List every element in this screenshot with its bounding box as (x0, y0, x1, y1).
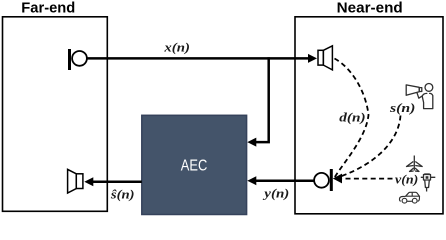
svg-text:AEC: AEC (181, 158, 208, 175)
dashed path d(n): echo from speaker to microphone (335, 59, 369, 178)
box Far-end (3, 17, 108, 212)
icon airplane (noise source) (407, 156, 423, 172)
arrowhead into near-end speaker (308, 54, 317, 63)
loudspeaker far-end (68, 169, 83, 193)
box Near-end (295, 17, 443, 214)
microphone near-end (314, 169, 333, 191)
svg-text:Near-end: Near-end (337, 0, 403, 16)
svg-text:v(n): v(n) (395, 172, 418, 187)
svg-text:x(n): x(n) (163, 39, 190, 54)
loudspeaker near-end (318, 46, 332, 70)
svg-text:y(n): y(n) (262, 185, 289, 200)
arrowhead into far-end loudspeaker (84, 177, 93, 186)
icon jackhammer (noise source) (421, 174, 436, 192)
arrowhead into microphone (sum of d,s,v) (333, 174, 342, 184)
svg-text:s(n): s(n) (389, 100, 416, 115)
dashed path v(n): noise to microphone (341, 178, 393, 180)
icon person with megaphone (near-end talker) (406, 84, 433, 109)
microphone far-end (68, 49, 87, 70)
arrowhead into AEC right edge (mic input) (247, 176, 256, 185)
icon car (noise source) (399, 192, 419, 203)
svg-text:Far-end: Far-end (21, 0, 75, 16)
dashed path s(n): near-end speech to microphone (338, 116, 401, 178)
wire branch from x(n) down to AEC (253, 57, 269, 142)
svg-text:ŝ(n): ŝ(n) (110, 186, 135, 201)
wire x(n) (87, 57, 311, 60)
arrowhead into AEC right edge (reference input) (247, 138, 256, 147)
block AEC (142, 115, 247, 214)
wire s-hat(n) from AEC to far-end loudspeaker (90, 181, 142, 184)
wire y(n) from microphone to AEC (253, 179, 314, 182)
svg-text:d(n): d(n) (339, 109, 365, 124)
